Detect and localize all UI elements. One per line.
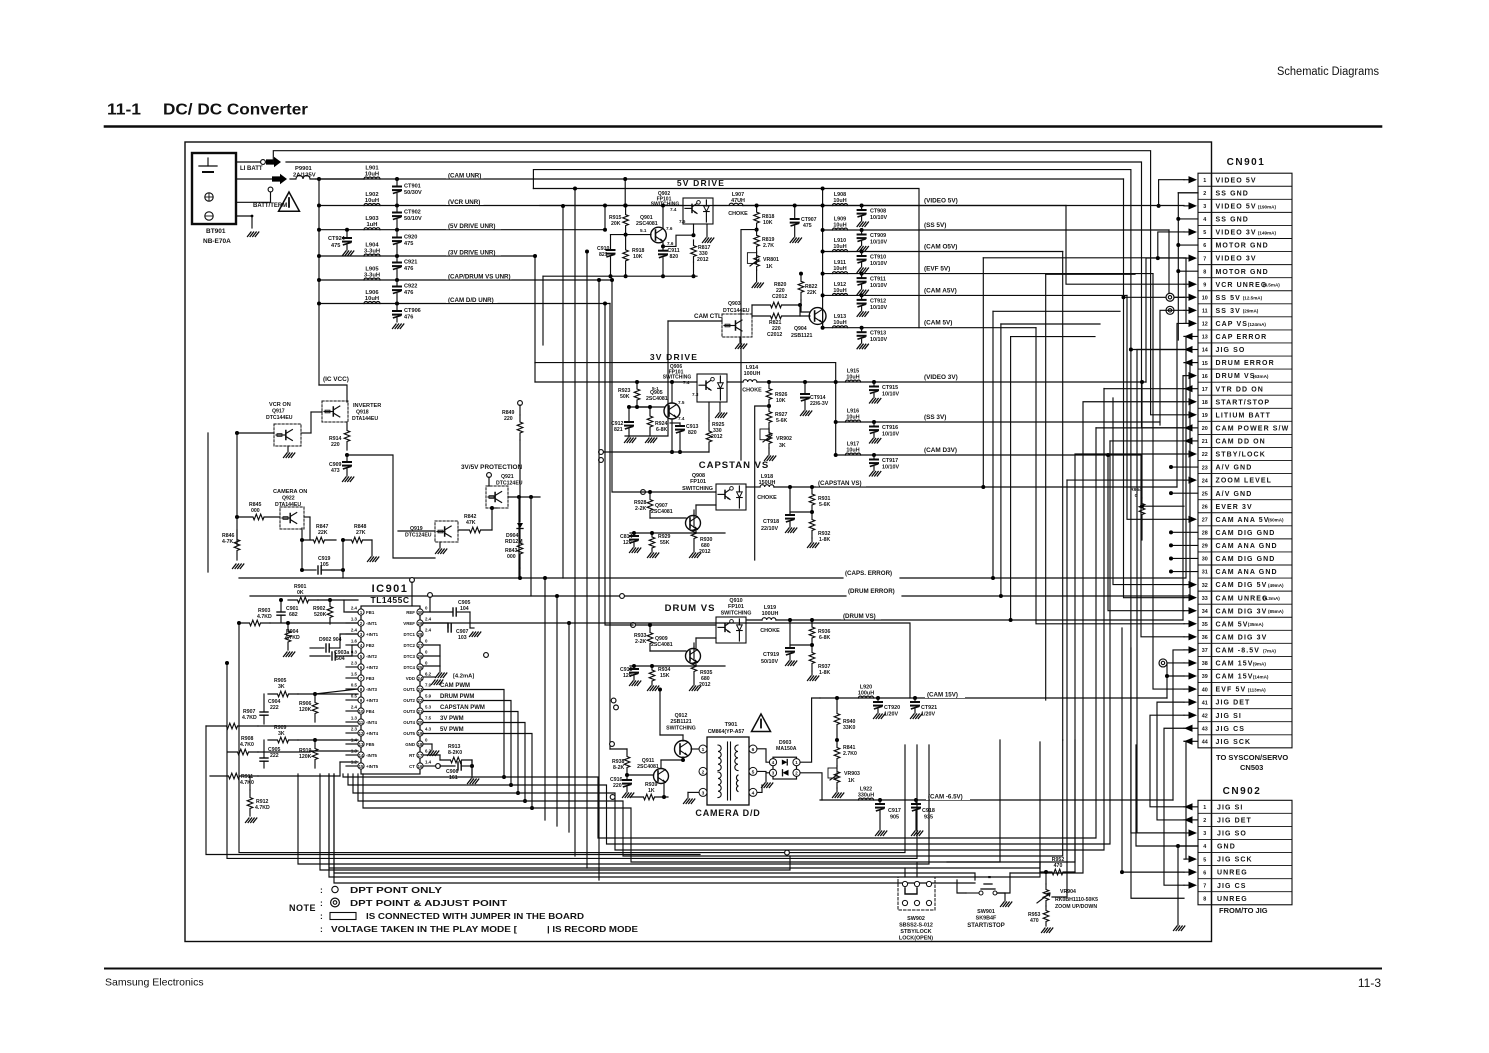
svg-text:15K: 15K [660,673,670,679]
net label (CAM UNR) [446,171,484,179]
svg-text:6-8K: 6-8K [819,635,830,641]
wire Q911 [660,760,662,768]
IC901 pin 3 +INT1 [358,631,364,637]
svg-text:RK0BH1110-50K5: RK0BH1110-50K5 [1055,897,1098,903]
wire [343,428,1096,838]
svg-text:1-8K: 1-8K [819,670,830,676]
svg-text:2: 2 [1203,191,1206,197]
wire [1113,398,1184,585]
svg-text:10uH: 10uH [833,223,846,229]
battery BT901 box [192,153,236,224]
svg-text:30: 30 [418,610,423,615]
svg-text:8: 8 [1203,896,1206,902]
node Q921 link [492,507,497,509]
svg-text:000: 000 [507,554,516,560]
svg-text:DTC4: DTC4 [404,665,416,670]
wire output row (SS 5V) [823,229,1169,231]
svg-text:820: 820 [688,430,697,436]
wire [530,497,532,596]
svg-text:21: 21 [1202,439,1208,445]
wire [1159,180,1184,206]
wire output row (EVF 5V) [823,273,1153,275]
IC901 pin 9 +INT3 [358,697,364,703]
IC901 pin 18 GND [417,741,423,747]
wire [1177,323,1184,487]
wire [544,578,546,820]
wire [1039,742,1041,872]
svg-text:0.5: 0.5 [351,683,358,688]
wire [1066,206,1184,285]
wire [800,773,822,800]
wire [206,726,700,855]
svg-text:100UH: 100UH [762,611,779,617]
svg-text:34: 34 [1202,609,1208,615]
battery symbol [199,165,217,167]
svg-text:CT912: CT912 [870,298,886,304]
capacitor C921 [396,256,398,263]
node battery top [261,160,266,165]
svg-text:Q922: Q922 [282,496,295,502]
svg-text:TL1455C: TL1455C [371,595,410,605]
D903 pin circles [769,759,776,766]
wire [598,280,600,880]
wire [982,258,984,487]
wire [1160,310,1184,425]
svg-text:VIDEO 3V: VIDEO 3V [1216,256,1257,263]
svg-text:2.7K0: 2.7K0 [843,751,857,757]
svg-text:CN902: CN902 [1223,786,1262,797]
svg-text:IS CONNECTED WITH JUMPER IN TH: IS CONNECTED WITH JUMPER IN THE BOARD [366,911,584,921]
svg-text:JIG SI: JIG SI [1217,804,1243,811]
svg-text:19: 19 [1202,413,1208,419]
switching device Q902 FP101 [683,198,713,224]
svg-text:A/V GND: A/V GND [1216,491,1253,498]
svg-text:VIDEO 5V: VIDEO 5V [1216,203,1257,210]
svg-text:10uH: 10uH [833,266,846,272]
wire 3V output bus [835,382,837,455]
svg-text:10/10V: 10/10V [870,215,887,221]
svg-text:2: 2 [702,769,705,775]
svg-text:(85mA): (85mA) [1268,609,1284,614]
wire drum input row [635,624,716,626]
svg-text:4.7K0: 4.7K0 [240,742,254,748]
svg-text:A/V GND: A/V GND [1216,465,1253,472]
svg-text:DC/ DC Converter: DC/ DC Converter [163,102,308,119]
svg-text:CAP ERROR: CAP ERROR [1216,334,1268,341]
svg-text:CT911: CT911 [870,277,886,283]
wire net row (CAP/DRUM VS UNR) [319,279,612,281]
svg-text:6: 6 [1203,243,1206,249]
wire Q921 out [508,496,540,498]
wire [612,280,645,492]
svg-text:CT920: CT920 [884,705,900,711]
svg-text:-INT5: -INT5 [366,753,378,758]
svg-text:4.7KD: 4.7KD [257,614,272,620]
IC901 pin 1 FB1 [358,609,364,615]
capacitor C920 [396,230,398,238]
svg-text:1: 1 [1203,805,1206,811]
svg-text:CT909: CT909 [870,233,886,239]
node ladder junction [317,254,321,258]
svg-text:CT910: CT910 [870,255,886,261]
svg-text:3: 3 [1203,204,1206,210]
wire [1184,741,1186,859]
svg-text:104: 104 [460,606,469,612]
svg-text:FP101: FP101 [728,604,744,610]
wire [1131,648,1184,898]
svg-text:CT921: CT921 [921,705,937,711]
capacitor CT913 [860,326,864,330]
wire Q904 emitter collector [822,309,824,328]
T901 pin 1 [699,745,707,753]
svg-text:(CAM D3V): (CAM D3V) [924,447,957,454]
svg-text:33: 33 [1202,596,1208,602]
svg-text:(EVF 5V): (EVF 5V) [924,266,950,273]
wire [239,577,843,579]
svg-text:CAM CTL: CAM CTL [694,313,722,320]
svg-text:CAP VS: CAP VS [1216,321,1249,328]
svg-text:4.7KD: 4.7KD [242,715,257,721]
wire [1052,480,1067,897]
transistor Q918 DTA144EU [322,401,348,422]
wire [568,623,570,832]
wire [319,385,347,402]
T901 pin 3 [699,788,707,796]
ground T901 pin3 [688,791,699,793]
svg-text:4: 4 [752,790,755,796]
wire [1137,350,1184,833]
svg-text:JIG CS: JIG CS [1216,726,1246,733]
svg-text:000: 000 [251,508,260,514]
svg-text:20K: 20K [611,221,621,227]
svg-text:SW901: SW901 [977,909,995,915]
T901 pin 2 [699,767,707,775]
svg-text:JIG SO: JIG SO [1217,831,1247,838]
svg-text:10uH: 10uH [833,288,846,294]
wire [1011,336,1095,338]
wire [997,873,1010,893]
wire cluster links [258,725,358,727]
svg-text:3V PWM: 3V PWM [440,716,464,722]
node ladder junction [317,302,321,306]
svg-text:STBY/LOCK: STBY/LOCK [900,929,931,935]
svg-text:CHOKE: CHOKE [760,628,780,634]
svg-text:2SC4081: 2SC4081 [646,396,668,402]
wire cam 15V row [820,697,1167,699]
ground battery [248,232,252,237]
svg-text:2SC4081: 2SC4081 [651,642,673,648]
svg-text:(9mA): (9mA) [1253,661,1266,666]
svg-text:(149mA): (149mA) [1258,230,1277,235]
IC901 pin 19 OUT5 [417,730,423,736]
svg-text:VTR DD ON: VTR DD ON [1216,386,1264,393]
IC901 pin 30 REF [417,609,423,615]
svg-text:10uH: 10uH [833,320,846,326]
svg-text:C922: C922 [404,284,417,290]
svg-text:7.9: 7.9 [425,683,432,688]
wire capstan input row [645,491,716,493]
wire [363,740,1000,862]
svg-text:13: 13 [1202,335,1208,341]
svg-text:220: 220 [613,783,622,789]
capacitor CT909 [860,228,864,232]
wire Q911 emitter [663,783,665,797]
svg-text:0K: 0K [297,590,304,596]
wire [533,170,1184,350]
T901 pin 5 [749,767,757,775]
wire [751,305,753,316]
wire fuse to bus [316,178,364,180]
svg-text:T901: T901 [725,722,738,728]
svg-text:10/10V: 10/10V [882,432,899,438]
svg-text:21: 21 [418,709,423,714]
net label CAM 15V [925,690,965,699]
svg-text:5V DRIVE: 5V DRIVE [677,178,725,188]
svg-text:0: 0 [1135,493,1138,499]
wire 5V output bus [822,189,824,328]
wire [518,497,520,578]
svg-text:CAM DIG 3V: CAM DIG 3V [1216,634,1268,641]
wire [766,772,769,774]
wire [542,276,544,345]
ground R953 [1042,928,1046,933]
wire 3V input row [535,381,697,383]
arrow feed main [272,174,287,184]
svg-text:CT902: CT902 [404,210,421,216]
svg-text:NB-E70A: NB-E70A [203,238,231,245]
svg-text:42: 42 [1202,713,1208,719]
svg-text:FB5: FB5 [366,742,375,747]
svg-text:(CAM D/D UNR): (CAM D/D UNR) [448,297,494,304]
wire [1046,273,1135,275]
svg-text:50K: 50K [620,394,630,400]
svg-text:1-8K: 1-8K [819,537,830,543]
wire [286,162,1184,428]
svg-text:IC901: IC901 [372,583,409,595]
op-amp IC901 body [361,606,420,774]
net label DRUM VS [841,611,881,620]
svg-text:3: 3 [1203,831,1206,837]
wire [1177,846,1179,925]
svg-text:103: 103 [458,635,467,641]
svg-text:2012: 2012 [711,434,723,440]
wire [1124,179,1185,297]
svg-text:DPT PONT ONLY: DPT PONT ONLY [350,885,442,895]
svg-text:1K: 1K [766,264,773,270]
svg-text:17: 17 [1202,387,1208,393]
svg-text:SS GND: SS GND [1216,217,1249,224]
wire [1157,702,1184,820]
svg-text:120K: 120K [299,707,312,713]
svg-text:47K: 47K [466,520,476,526]
IC901 pin 10 FB4 [358,708,364,714]
wire [790,511,812,513]
svg-text:682: 682 [289,612,298,618]
svg-text:22/6-3V: 22/6-3V [810,401,829,407]
svg-text:(VIDEO 3V): (VIDEO 3V) [924,374,958,381]
svg-text:Q904: Q904 [794,326,807,332]
wire output row (SS 3V) [836,421,1160,423]
wire [1010,402,1184,873]
svg-text:476: 476 [404,290,413,296]
svg-text:7.4: 7.4 [678,416,685,421]
wire [353,389,1104,851]
svg-text:12: 12 [359,731,364,736]
svg-text:2012: 2012 [697,257,709,263]
svg-text:6-8K: 6-8K [656,427,667,433]
node R914 out [345,453,349,457]
wire IC left pin stubs [346,611,358,613]
svg-text:47UH: 47UH [731,198,745,204]
IC901 pin 17 RT [417,752,423,758]
node after inductor [395,204,399,208]
svg-text:6: 6 [1203,870,1206,876]
svg-text:10uH: 10uH [846,375,859,381]
svg-text:10/10V: 10/10V [882,392,899,398]
svg-text:C921: C921 [404,260,417,266]
wire [348,441,1110,844]
IC901 pin 23 OUT1 [417,686,423,692]
svg-text:43: 43 [1202,726,1208,732]
node after inductor [395,177,399,181]
wire [904,868,906,877]
IC901 pin 14 -INT5 [358,752,364,758]
wire [1062,252,1064,741]
svg-text:5.1: 5.1 [640,228,647,233]
svg-text:CAM POWER S/W: CAM POWER S/W [1216,425,1290,432]
wire [227,663,917,858]
svg-text:27: 27 [418,643,423,648]
svg-text:CN901: CN901 [1227,157,1266,168]
wire [1136,745,1198,846]
svg-text:OUT2: OUT2 [403,698,415,703]
svg-text:50/10V: 50/10V [404,216,422,222]
wire [1146,258,1184,382]
svg-text:10uH: 10uH [833,198,846,204]
svg-text:20: 20 [418,720,423,725]
svg-text:11: 11 [1202,309,1208,315]
wire Q905 base [637,406,664,408]
wire [993,310,1120,312]
svg-text:19: 19 [418,731,423,736]
svg-text:7.5: 7.5 [678,400,685,405]
svg-text:905: 905 [890,815,899,821]
svg-text:10K: 10K [763,220,773,226]
wire [273,151,1184,415]
svg-text:39: 39 [1202,674,1208,680]
svg-text:DTC1: DTC1 [404,632,416,637]
IC901 pin 24 VDD [417,675,423,681]
node R818 R819 [755,228,759,232]
svg-text:4: 4 [1203,217,1206,223]
wire output row (CAM D3V) [836,454,1141,456]
svg-text:MA150A: MA150A [776,746,797,752]
svg-text:CHOKE: CHOKE [742,388,762,394]
svg-text:(CAPS. ERROR): (CAPS. ERROR) [845,570,892,577]
svg-text:CAM DIG GND: CAM DIG GND [1216,556,1276,563]
wire [1001,323,1100,325]
svg-text:Q917: Q917 [272,409,285,415]
wire [534,256,536,363]
wire [556,596,558,826]
IC901 pin 22 OUT2 [417,697,423,703]
svg-text:8: 8 [1203,269,1206,275]
svg-text:15: 15 [1202,361,1208,367]
node ladder junction [317,278,321,282]
svg-text:476: 476 [404,266,413,272]
svg-text:MOTOR GND: MOTOR GND [1216,243,1269,250]
wire 3V bottom bus [603,451,709,453]
svg-text:7.6: 7.6 [679,219,686,224]
svg-text:220: 220 [504,416,513,422]
wire [916,862,918,877]
svg-text:(49mA): (49mA) [1268,583,1284,588]
svg-text:22: 22 [1202,452,1208,458]
svg-text:P9901: P9901 [295,166,313,172]
node ladder junction [317,228,321,232]
svg-text:22K: 22K [318,530,328,536]
connector CN901 body [1198,173,1292,748]
svg-text:-INT2: -INT2 [366,654,378,659]
switch SW902 STBY/LOCK [898,877,935,910]
wire [423,701,511,786]
svg-text:CT917: CT917 [882,458,898,464]
svg-text:CAM PWM: CAM PWM [440,683,470,689]
svg-text:+INT2: +INT2 [366,665,379,670]
svg-text:31: 31 [1202,570,1208,576]
svg-text:6: 6 [752,747,755,753]
svg-text:520K: 520K [314,612,327,618]
svg-text:CAM ANA 5V: CAM ANA 5V [1216,517,1270,524]
wire [298,745,929,864]
svg-text:1.6: 1.6 [351,639,358,644]
svg-text:10uH: 10uH [833,244,846,250]
svg-text:2-2K: 2-2K [635,506,646,512]
wire [1122,628,1184,872]
node DPT on drum pwm wire [611,698,616,703]
wire [1173,650,1184,800]
svg-text:CAM 15V: CAM 15V [1216,661,1254,668]
wire GND pin [423,743,432,745]
svg-text:CAMERA D/D: CAMERA D/D [695,808,760,818]
svg-text:INVERTER: INVERTER [353,403,381,409]
svg-text:10uH: 10uH [846,448,859,454]
svg-text:821: 821 [614,427,623,433]
wire ladder bus vertical [318,179,320,385]
svg-text:23: 23 [418,687,423,692]
capacitor C922 [396,280,398,287]
wire [983,258,1186,324]
svg-text:1/20V: 1/20V [884,712,898,718]
svg-text:+INT5: +INT5 [366,764,379,769]
svg-text:161: 161 [449,775,458,781]
svg-text:+INT4: +INT4 [366,731,379,736]
svg-text:2SB1121: 2SB1121 [670,719,691,725]
node BATT term [268,187,273,192]
svg-text:35: 35 [1202,622,1208,628]
svg-text:FB2: FB2 [366,643,375,648]
adjust point pin11 [1166,306,1174,314]
wire pin17 pin20 pin21 stubs [1104,388,1184,390]
capacitor CT908 [860,204,864,208]
wire [604,206,606,230]
wire Q907 collector [695,505,697,516]
svg-text:10/10V: 10/10V [870,283,887,289]
svg-text:START/STOP: START/STOP [967,923,1004,929]
IC901 pin 11 -INT4 [358,719,364,725]
svg-text:(CAM 15V): (CAM 15V) [927,692,958,699]
svg-text:100UH: 100UH [744,371,761,377]
